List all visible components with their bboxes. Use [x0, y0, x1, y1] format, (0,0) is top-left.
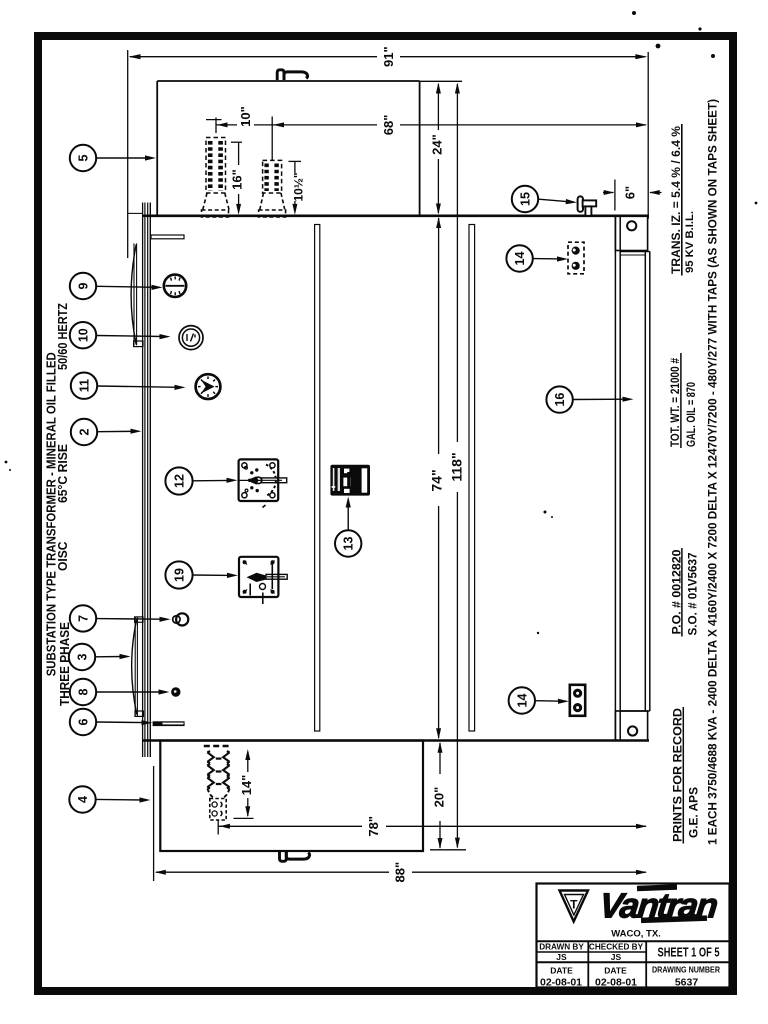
balloon 9	[70, 273, 96, 299]
svg-text:JS: JS	[611, 952, 622, 962]
dim 91 left ext line	[127, 50, 129, 258]
balloon 4	[69, 786, 95, 812]
gauge 9 liquid level	[164, 275, 186, 297]
svg-text:DATE: DATE	[550, 966, 573, 976]
dim 6 right arrow line	[650, 192, 662, 194]
svg-text:14": 14"	[239, 775, 254, 796]
left front panel seam	[315, 225, 320, 732]
dim 78 left tick	[217, 821, 219, 835]
dim 20 line	[439, 743, 441, 848]
LV bushing neck left	[208, 789, 215, 798]
tank left wall line b	[144, 203, 146, 758]
tap changer box 12	[239, 459, 279, 501]
LV bushing terminal box	[210, 799, 226, 821]
arrowheads 88	[155, 870, 166, 875]
leader arrowhead 9	[152, 285, 163, 290]
leader 14 bottom	[536, 700, 563, 703]
right underline trans iz	[681, 124, 683, 276]
svg-text:3: 3	[76, 653, 90, 660]
svg-text:15: 15	[519, 192, 533, 206]
scan speck i	[9, 469, 11, 471]
leader 8	[97, 691, 164, 693]
svg-text:14: 14	[515, 694, 529, 708]
right channel top connector	[620, 251, 650, 253]
leader 12	[193, 479, 230, 481]
LV bushing skirt row 1 dash	[216, 757, 222, 759]
svg-text:10": 10"	[238, 106, 253, 127]
LV bushing skirt row 2 dash	[216, 770, 222, 772]
svg-text:65°C RISE: 65°C RISE	[55, 444, 70, 503]
cover top edge	[157, 80, 419, 82]
leader 15	[539, 199, 570, 202]
switch shaft	[266, 574, 287, 579]
arrowheads 6	[604, 190, 615, 195]
svg-text:68": 68"	[381, 115, 396, 136]
bottom right bracket bolt hole	[628, 726, 637, 735]
leader arrowhead 6	[142, 720, 153, 725]
leader arrowhead 14 bottom	[558, 699, 569, 704]
svg-text:9: 9	[77, 282, 91, 289]
dim 78 line	[218, 825, 646, 827]
dim 74 line	[438, 218, 440, 738]
lower radiator panel line a	[134, 617, 136, 716]
right underline tot wt	[680, 353, 682, 448]
dim 10 line	[216, 124, 272, 126]
scan speck c	[698, 27, 701, 30]
title block outline	[537, 884, 730, 988]
leader arrowhead 5	[145, 155, 156, 160]
leader 10	[97, 336, 164, 337]
scan speck b	[656, 44, 661, 49]
dim 10.5 line	[294, 161, 296, 211]
LV bushing skirt row 3 dash	[216, 783, 222, 785]
small arc marks	[263, 505, 266, 508]
upper radiator panel line b	[136, 243, 138, 345]
HV bushing 1 base left side	[203, 193, 207, 210]
arrowheads 118	[455, 83, 460, 94]
balloon 8	[70, 679, 96, 705]
Vantran top bar	[637, 884, 677, 891]
svg-text:SHEET 1 OF 5: SHEET 1 OF 5	[658, 946, 720, 960]
svg-text:TRANS. IZ. = 5.4 % / 6.4 %: TRANS. IZ. = 5.4 % / 6.4 %	[669, 126, 683, 274]
top right corner bracket	[615, 216, 647, 251]
svg-text:S.O. # 01V5637: S.O. # 01V5637	[685, 552, 699, 635]
svg-text:10½": 10½"	[291, 172, 305, 201]
svg-text:11: 11	[78, 379, 92, 392]
arrowheads 10.5	[292, 204, 297, 215]
leader arrowhead 10	[160, 334, 171, 339]
dim 88 left ext line	[153, 766, 155, 881]
tap changer hub dots	[250, 471, 253, 474]
svg-text:91": 91"	[381, 46, 396, 67]
LV bushing skirt row 1 right	[223, 751, 230, 763]
LV bushing skirt row 2 left	[207, 764, 214, 776]
lower radiator panel line b	[136, 617, 138, 716]
scan speck j	[537, 632, 539, 634]
arrowhead 10	[217, 122, 228, 127]
arrowheads 68	[273, 122, 284, 127]
leader arrowhead 12	[227, 478, 238, 483]
dim 88 line	[156, 871, 646, 873]
dim 10 right ext (bushing2 center)	[271, 117, 273, 161]
switch box 19	[239, 557, 278, 597]
leader arrowhead 19	[227, 573, 238, 578]
balloon 3	[69, 644, 95, 670]
HV bushing 2 base left side	[260, 193, 264, 210]
leader arrowhead 3	[120, 654, 131, 659]
scan speck a	[632, 11, 636, 15]
HV bushing 2 dashed outline	[263, 160, 282, 193]
right channel bottom connector	[620, 710, 650, 712]
leader 9	[97, 286, 156, 287]
leader arrowhead 2	[131, 429, 142, 434]
svg-text:7: 7	[77, 615, 91, 622]
leader arrowhead 13	[346, 497, 351, 508]
cover left edge	[156, 81, 158, 216]
leader 19	[193, 574, 231, 576]
leader 6	[97, 721, 147, 724]
tap changer shaft	[262, 478, 287, 483]
oil valve fitting 7	[173, 616, 180, 623]
dim 24 top ext line	[420, 80, 462, 82]
right underline prints	[682, 707, 684, 844]
svg-text:OISC: OISC	[55, 541, 70, 571]
right front panel seam	[469, 225, 475, 732]
dim 16 top tick	[231, 141, 242, 143]
balloon 19	[165, 561, 192, 588]
right channel outer line b	[649, 252, 651, 712]
LV bushing top cap	[204, 745, 232, 748]
svg-text:20": 20"	[432, 787, 447, 808]
leader 5	[97, 157, 149, 159]
LV bushing neck right	[223, 789, 230, 798]
LV terminal detail m1	[221, 802, 223, 807]
leader 13	[347, 503, 349, 530]
svg-text:19: 19	[173, 568, 187, 582]
svg-text:CHECKED BY: CHECKED BY	[589, 943, 644, 952]
HV bushing 1 right skirt column	[218, 141, 223, 191]
svg-text:13: 13	[342, 537, 356, 551]
tank left wall line c	[147, 203, 149, 758]
dim 68 line	[272, 124, 646, 126]
svg-text:02-08-01: 02-08-01	[595, 977, 637, 989]
balloon 14 bottom	[509, 687, 535, 713]
logo triangle inner	[565, 895, 584, 916]
svg-text:GAL. OIL = 870: GAL. OIL = 870	[684, 382, 698, 447]
balloon 13	[335, 530, 361, 556]
plug fitting 8	[171, 687, 180, 696]
balloon 5	[70, 145, 96, 171]
tank left wall line a	[142, 203, 144, 758]
dim 91 line	[130, 56, 645, 58]
svg-text:THREE PHASE: THREE PHASE	[57, 622, 72, 706]
svg-text:5637: 5637	[675, 977, 699, 989]
leader 11	[98, 386, 179, 387]
leader arrowhead 7	[160, 617, 171, 622]
LV bushing skirt row 1 left	[207, 751, 214, 763]
svg-text:6": 6"	[623, 186, 638, 199]
lower radiator top bracket	[135, 617, 143, 622]
Vantran bottom swash	[641, 915, 707, 923]
title block line under JS row	[537, 961, 730, 963]
balloon 15	[512, 186, 538, 212]
scan speck e	[544, 511, 547, 514]
HV bushing 2 flange	[259, 210, 286, 217]
LV terminal detail c1	[212, 802, 217, 807]
leader 2	[98, 430, 135, 432]
scan speck h	[5, 461, 8, 464]
svg-text:T: T	[570, 898, 578, 912]
leader arrowhead 4	[140, 797, 151, 802]
leader 3	[96, 656, 124, 658]
arrowheads 14	[245, 749, 250, 760]
logo triangle outer	[560, 891, 589, 922]
svg-text:TOT. WT. = 21000 #: TOT. WT. = 21000 #	[668, 358, 682, 447]
tap changer center line	[240, 479, 263, 481]
right underline po	[681, 548, 683, 637]
dim 24 line	[437, 84, 439, 213]
HV bushing 1 flange	[202, 210, 229, 217]
svg-text:6: 6	[77, 718, 91, 725]
LV bushing skirt row 2 right	[223, 764, 230, 776]
svg-text:DRAWN BY: DRAWN BY	[539, 943, 584, 952]
balloon 2	[71, 419, 97, 445]
svg-text:5: 5	[77, 154, 91, 161]
LV bushing skirt row 3 left	[207, 777, 214, 789]
balloon 10	[70, 322, 96, 348]
leader 16	[573, 398, 626, 400]
HV bushing 1 dashed outline	[206, 138, 226, 194]
leader arrowhead 11	[175, 385, 186, 390]
arrowheads 24	[436, 83, 441, 94]
scan speck d	[711, 54, 715, 58]
radiator top plate stub	[128, 212, 143, 214]
LV terminal detail m2	[221, 811, 223, 816]
balloon 14 top	[506, 245, 532, 271]
pressure relief 14 dashed	[568, 242, 584, 274]
cover right edge	[419, 81, 421, 216]
upper radiator panel line a	[133, 243, 135, 345]
tank top edge	[143, 215, 649, 218]
svg-text:14: 14	[513, 252, 527, 266]
svg-text:DRAWING NUMBER: DRAWING NUMBER	[652, 965, 720, 975]
dim 118 bottom ext line	[430, 849, 466, 851]
svg-text:PRINTS FOR RECORD: PRINTS FOR RECORD	[670, 708, 684, 842]
switch drip marks	[249, 584, 251, 596]
svg-text:16": 16"	[230, 169, 245, 190]
scan speck g	[755, 202, 758, 205]
svg-text:95 KV B.I.L.: 95 KV B.I.L.	[684, 211, 696, 273]
title block row line under logo	[537, 940, 730, 942]
svg-text:118": 118"	[448, 452, 464, 481]
svg-text:WACO, TX.: WACO, TX.	[611, 929, 661, 940]
svg-text:24": 24"	[430, 134, 445, 155]
base rect	[160, 741, 423, 852]
tank bottom edge	[143, 739, 649, 742]
svg-text:G.E. APS: G.E. APS	[687, 787, 701, 838]
cover lifting hook	[277, 70, 284, 80]
arrowheads 16	[236, 204, 241, 215]
right channel outer line a	[644, 252, 646, 712]
leader arrowhead 8	[159, 689, 170, 694]
LV bushing skirt row 3 right	[223, 777, 230, 789]
lower radiator bulge arc	[132, 619, 137, 715]
HV bushing 2 right skirt column	[274, 164, 278, 192]
dim 14 bottom foot	[234, 817, 254, 819]
tap changer handle	[247, 476, 259, 484]
HV bushing 2 left skirt column	[264, 164, 268, 192]
leader 4	[96, 798, 143, 801]
balloon 12	[165, 467, 192, 494]
lower radiator bottom bracket	[135, 711, 143, 716]
scan speck f	[551, 516, 553, 518]
svg-text:8: 8	[77, 688, 91, 695]
arrowheads 20	[438, 742, 443, 753]
svg-text:88": 88"	[393, 862, 408, 883]
HV bushing 1 base right side	[225, 193, 229, 210]
bottom right corner bracket	[615, 711, 647, 741]
svg-text:10: 10	[77, 328, 91, 342]
dim 6 left ext line	[614, 180, 616, 211]
nameplate 13	[330, 465, 370, 496]
tank right wall line a	[614, 216, 616, 741]
leader 14 top	[533, 258, 561, 260]
svg-text:4: 4	[76, 796, 90, 803]
svg-text:02-08-01: 02-08-01	[540, 977, 582, 989]
leader arrowhead 14 top	[557, 256, 568, 261]
HV bushing 1 left skirt column	[208, 141, 213, 191]
HV bushing 2 base right side	[281, 193, 285, 210]
svg-text:16: 16	[553, 393, 567, 407]
dim 91 right ext line	[647, 52, 649, 219]
dim 118 line	[456, 84, 458, 848]
svg-text:74": 74"	[429, 469, 445, 491]
svg-text:2: 2	[78, 428, 92, 435]
arrowheads 74	[436, 217, 441, 228]
right channel second top connector	[620, 254, 645, 256]
title block column line 2	[645, 941, 647, 988]
dim 10 left tick	[206, 118, 222, 134]
leader arrowhead 15	[566, 199, 577, 204]
base lifting hook	[280, 851, 287, 861]
upper radiator bottom bracket	[134, 341, 143, 347]
svg-text:DATE: DATE	[604, 966, 627, 976]
dim 10.5 top tick	[289, 160, 302, 162]
arrowheads 78	[219, 824, 230, 829]
balloon 11	[71, 373, 97, 399]
svg-text:78": 78"	[366, 816, 381, 837]
jack bracket 6	[153, 721, 185, 726]
balloon 16	[546, 386, 572, 412]
leader arrowhead 16	[623, 397, 634, 402]
ground pad 14 bottom	[570, 685, 585, 716]
switch handle	[247, 573, 267, 582]
arrowheads 91	[129, 54, 141, 59]
upper radiator bulge arc	[131, 245, 136, 345]
tank right wall line b	[619, 216, 621, 741]
svg-text:1 EACH 3750/4688 KVA - 2400 DE: 1 EACH 3750/4688 KVA - 2400 DELTA X 4160…	[706, 99, 720, 845]
svg-text:50/60 HERTZ: 50/60 HERTZ	[55, 303, 70, 370]
dim 16 line	[238, 142, 240, 211]
drain valve 15	[578, 196, 583, 211]
dim 14 line	[247, 752, 249, 816]
leader 7	[97, 618, 164, 621]
svg-text:12: 12	[173, 474, 187, 488]
upper radiator top bracket	[151, 235, 184, 239]
gauge 11 dial thermometer	[196, 374, 221, 399]
switch vertical bar	[271, 564, 273, 590]
balloon 6	[70, 709, 96, 735]
title block line under byline headers	[537, 951, 647, 953]
tank left wall line d	[149, 203, 151, 758]
svg-text:JS: JS	[556, 952, 567, 962]
top right bracket bolt hole	[627, 221, 636, 230]
tap changer dial arc	[266, 465, 276, 497]
gauge 10 pressure vacuum	[179, 326, 203, 350]
LV terminal detail c2	[212, 811, 217, 816]
balloon 7	[70, 605, 96, 631]
dim 6 left arrow line	[603, 192, 614, 194]
title block column line 1	[587, 941, 589, 988]
